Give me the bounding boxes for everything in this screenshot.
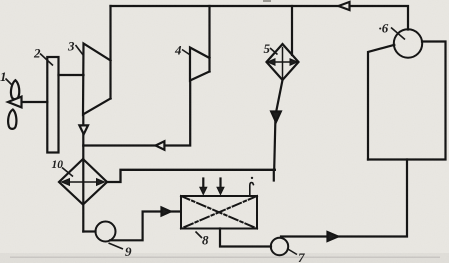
turbine 4: [190, 48, 210, 81]
wire: pump 9 to cooler 8 inlet: [110, 212, 180, 241]
tick 9: [109, 243, 124, 249]
arrow (filled, right) on pump 7 discharge: [328, 232, 339, 241]
arrow (filled, down) below heater 5: [271, 112, 281, 123]
wire: regenerator 10 to pump 9: [83, 230, 95, 232]
wire: turbine 3 outlet down to regenerator 10: [82, 115, 84, 160]
arrow (filled, right) into cooler 8: [162, 207, 171, 215]
wire: turbine 4 right edge + riser to top wire: [208, 6, 210, 72]
arrow (hollow, left) on top wire: [339, 2, 350, 10]
wire: turbine 3 right edge + riser to top wire: [109, 6, 111, 99]
wire: turbine 4 outlet down and left to node on turbine-3 line: [83, 81, 190, 146]
compressor 6 (circle): [394, 29, 422, 57]
arrow (hollow, left) on that wire: [156, 141, 165, 149]
turbine 3: [83, 44, 111, 115]
tick 10: [62, 168, 73, 177]
tick 1: [6, 79, 12, 85]
double arrow inside regenerator 10: [66, 181, 100, 183]
arrow (hollow, down) above regenerator 10: [79, 125, 88, 134]
cooler 8 water arrows (filled, down): [202, 179, 204, 189]
pump 9: [96, 222, 116, 242]
vertical line inside heater 5: [282, 48, 284, 81]
gear / load bar 2: [47, 57, 58, 153]
pump 7: [271, 238, 288, 255]
tick 3: [76, 45, 84, 56]
wire: riser from top wire to heater 5: [291, 6, 293, 55]
wire: cooler 8 drain to pump 7: [220, 229, 271, 247]
cooler 8 vent hook: [250, 183, 254, 196]
wire: fan hub to bar 2: [22, 101, 48, 103]
regenerator 10 (diamond): [59, 159, 107, 205]
fan 1: lower blade: [8, 110, 16, 129]
tick 6: [391, 28, 405, 40]
tick 4: [182, 50, 190, 55]
wire: heater 5 down, left, into regenerator 10 right tip: [274, 80, 282, 170]
fan 1: hub arrow: [8, 97, 22, 108]
wire: pump 7 to condenser tank: [281, 160, 407, 237]
wire: bar 2 to turbine 3 inlet: [59, 74, 84, 76]
tick 8: [196, 232, 203, 239]
heater 5 (diamond): [267, 44, 299, 80]
tick 2: [40, 54, 53, 66]
wire: top header from turbine 3 to compressor 6: [111, 6, 409, 30]
tick 5: [270, 48, 278, 55]
wire: vertical through regenerator 10 down to pump 9: [82, 159, 84, 232]
cooler 8 (rectangle): [181, 196, 257, 229]
tick 7: [287, 249, 297, 255]
cooler 8 crossed dash-dot diagonals: [181, 196, 257, 229]
double arrow inside heater 5: [271, 61, 294, 63]
condenser tank (big rectangle, right): [368, 45, 394, 160]
fan 1: upper blade: [11, 80, 19, 99]
